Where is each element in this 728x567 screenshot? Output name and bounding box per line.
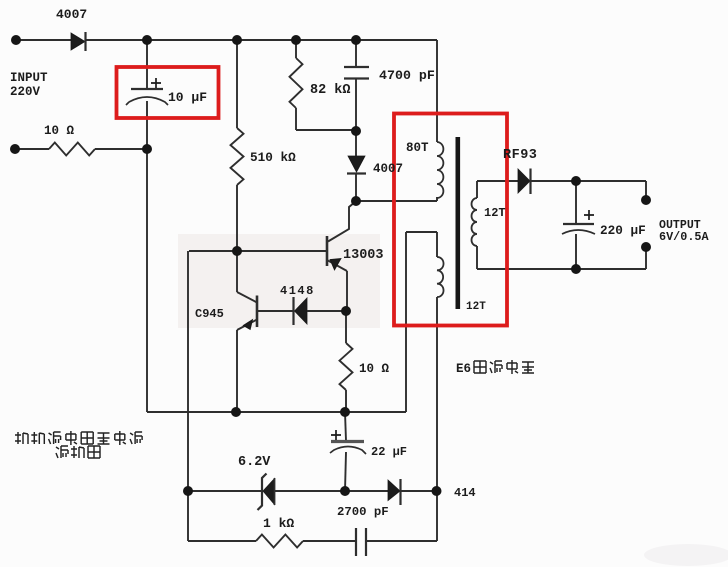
svg-text:12T: 12T <box>484 206 506 220</box>
svg-text:RF93: RF93 <box>503 148 537 163</box>
svg-text:22 μF: 22 μF <box>371 445 407 459</box>
svg-text:4700 pF: 4700 pF <box>379 68 435 83</box>
svg-text:4007: 4007 <box>373 162 403 176</box>
svg-text:82 kΩ: 82 kΩ <box>310 83 351 98</box>
svg-text:6V/0.5A: 6V/0.5A <box>659 230 709 244</box>
svg-text:220 μF: 220 μF <box>600 223 646 238</box>
svg-text:1 kΩ: 1 kΩ <box>263 516 294 531</box>
svg-text:10 Ω: 10 Ω <box>359 362 390 376</box>
svg-text:12T: 12T <box>466 301 486 313</box>
svg-text:510 kΩ: 510 kΩ <box>250 150 296 165</box>
svg-text:13003: 13003 <box>343 248 384 263</box>
svg-text:220V: 220V <box>10 85 41 99</box>
svg-text:4007: 4007 <box>56 7 87 22</box>
svg-text:E6: E6 <box>456 362 471 376</box>
svg-text:INPUT: INPUT <box>10 71 48 85</box>
svg-text:10 μF: 10 μF <box>168 90 207 105</box>
svg-text:2700 pF: 2700 pF <box>337 505 389 519</box>
svg-text:4148: 4148 <box>280 284 315 298</box>
svg-text:80T: 80T <box>406 141 429 155</box>
svg-text:414: 414 <box>454 486 476 500</box>
svg-text:10 Ω: 10 Ω <box>44 124 75 138</box>
svg-text:C945: C945 <box>195 307 224 321</box>
svg-text:6.2V: 6.2V <box>238 455 271 470</box>
